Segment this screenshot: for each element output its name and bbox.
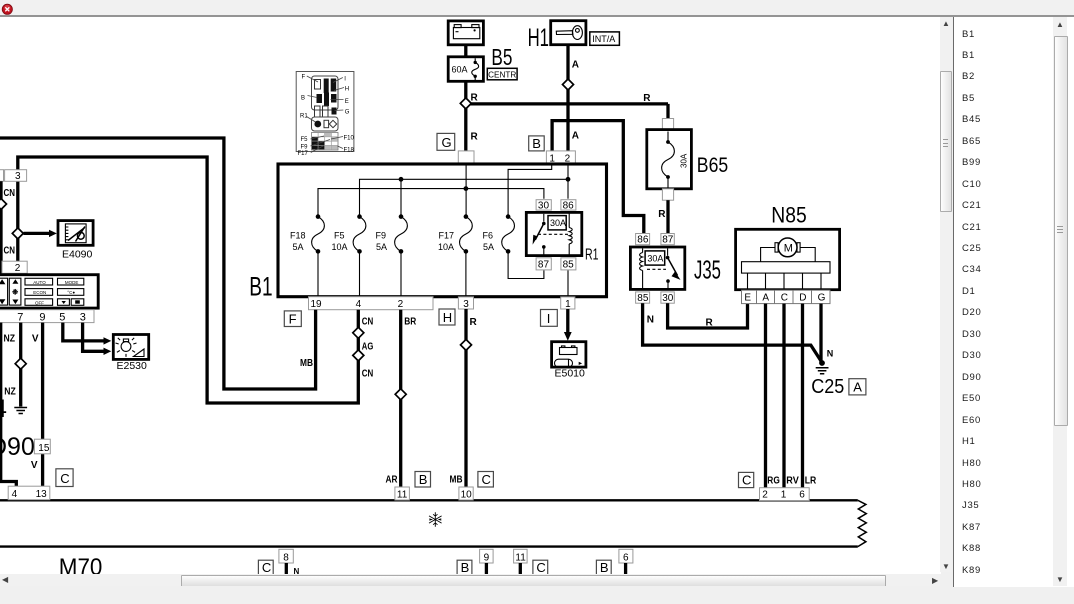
svg-text:9: 9	[39, 311, 45, 323]
svg-text:30A: 30A	[550, 218, 566, 228]
svg-text:F9: F9	[301, 144, 309, 150]
pin box 10 on M70	[459, 487, 473, 501]
svg-text:B: B	[419, 472, 428, 487]
wire R horizontal to B65	[469, 104, 668, 119]
connector letter A	[849, 379, 866, 395]
svg-text:9: 9	[484, 552, 490, 563]
label B5	[491, 44, 512, 70]
relay J35	[630, 234, 684, 305]
svg-text:J35: J35	[694, 255, 721, 285]
B1 internal: F9 drop	[400, 179, 402, 216]
left edge connector pin boxes (cut)	[0, 170, 27, 183]
svg-text:R: R	[470, 317, 478, 328]
svg-text:A: A	[853, 380, 862, 395]
B1 internal: pin1 jog to F6	[508, 164, 552, 217]
connector letter B (pin 6)	[596, 560, 611, 575]
wire from pin 1 up-over to J35 86	[552, 121, 644, 234]
svg-text:AUTO: AUTO	[33, 280, 46, 285]
B1 internal bus L2 (30 feed)	[318, 189, 544, 217]
left edge wire upper segment	[0, 181, 3, 274]
svg-text:15: 15	[38, 443, 50, 454]
svg-text:2: 2	[398, 299, 404, 310]
svg-text:CENTR: CENTR	[488, 70, 516, 79]
svg-text:B65: B65	[697, 153, 728, 177]
label B1	[249, 271, 272, 301]
svg-text:10A: 10A	[438, 242, 454, 252]
connector letter H	[439, 309, 455, 325]
blower motor N85	[736, 229, 840, 303]
svg-text:11: 11	[397, 490, 408, 501]
M70 bottom pin 8 and wire N	[279, 549, 300, 576]
ignition/battery icon E5010	[552, 342, 586, 368]
pin box 1 2 on B1	[546, 151, 575, 164]
pin box 2 1 6 on M70	[760, 488, 810, 501]
fuse F18 5A	[290, 214, 324, 253]
label E5010	[555, 368, 586, 380]
svg-text:19: 19	[311, 299, 323, 310]
splice diamond on left edge wire	[0, 199, 7, 210]
label C25	[811, 376, 844, 398]
svg-text:R: R	[706, 317, 714, 328]
svg-text:F18: F18	[344, 148, 355, 154]
bottom strip	[0, 586, 1074, 604]
svg-text:H: H	[345, 87, 349, 93]
fuse F9 5A	[376, 214, 408, 253]
svg-text:85: 85	[637, 293, 649, 304]
svg-text:30: 30	[662, 293, 674, 304]
splice diamonds on CN/AG wire	[353, 327, 364, 361]
pin box G (blank) on B1	[458, 151, 474, 164]
wire R from B5 fuse down to G pin	[464, 45, 467, 152]
svg-text:F17: F17	[439, 230, 455, 240]
horizontal scrollbar	[0, 574, 940, 586]
svg-text:5: 5	[59, 311, 65, 323]
svg-text:H: H	[443, 310, 452, 325]
svg-text:3: 3	[80, 311, 86, 323]
svg-text:R: R	[658, 209, 666, 220]
svg-text:A: A	[762, 293, 769, 304]
wire N from J35 85 to ground	[643, 303, 822, 362]
svg-text:N: N	[827, 349, 834, 359]
fuse F6 5A	[483, 214, 515, 253]
wire LR from N85 D to M70 pin 6	[801, 304, 804, 488]
svg-text:2: 2	[15, 263, 21, 274]
svg-text:A: A	[572, 60, 579, 71]
harness band M70	[0, 500, 866, 546]
wire R/MB from B1 pin 3 to M70 pin 10	[450, 309, 478, 488]
label E2530	[117, 360, 148, 372]
fuse module B65	[647, 119, 692, 201]
svg-text:RV: RV	[786, 475, 799, 486]
connector letter C (N85 wires)	[739, 472, 754, 487]
svg-text:B: B	[301, 96, 305, 102]
svg-text:E: E	[345, 99, 349, 105]
wire R from J35 30 to N85 E	[668, 303, 748, 328]
svg-text:30A: 30A	[647, 254, 663, 264]
wire N from N85 G to ground	[819, 304, 822, 362]
svg-text:G: G	[345, 110, 350, 116]
svg-text:C: C	[262, 560, 271, 574]
svg-text:N: N	[294, 567, 300, 574]
svg-text:CN: CN	[362, 368, 374, 379]
label D90	[0, 433, 35, 461]
connector letter C (left)	[56, 469, 73, 487]
svg-text:R: R	[471, 132, 479, 143]
svg-text:E4090: E4090	[62, 249, 93, 261]
big label 4 (cut component)	[0, 395, 7, 423]
M70 bottom pin 11	[514, 549, 528, 574]
svg-text:R: R	[471, 92, 479, 103]
svg-text:8: 8	[283, 552, 289, 563]
wire label A (lower)	[572, 130, 579, 141]
svg-text:F6: F6	[483, 230, 494, 240]
svg-text:B: B	[532, 136, 541, 151]
svg-text:CN: CN	[362, 316, 374, 327]
svg-text:7: 7	[17, 311, 23, 323]
pin box 11 on M70	[395, 487, 410, 501]
key switch H1	[551, 21, 586, 45]
B1 internal: pin2 drop to R1 86	[567, 164, 569, 199]
svg-text:4: 4	[356, 299, 362, 310]
B1 internal: F6 to R1 87	[508, 251, 544, 278]
B1 internal: fuse outputs to bottom pins	[318, 251, 466, 297]
svg-text:F18: F18	[290, 230, 306, 240]
svg-text:86: 86	[637, 235, 649, 246]
label J35	[694, 255, 721, 285]
svg-text:5A: 5A	[293, 242, 304, 252]
label M70	[59, 554, 103, 581]
svg-text:5A: 5A	[376, 242, 387, 252]
svg-text:AR: AR	[386, 475, 399, 486]
svg-text:OFF: OFF	[35, 300, 44, 305]
svg-text:C25: C25	[811, 376, 844, 398]
wire labels RG RV LR	[767, 475, 817, 486]
label E4090	[62, 249, 93, 261]
svg-text:AG: AG	[362, 341, 374, 352]
svg-text:10: 10	[461, 490, 473, 501]
label INT/A	[590, 32, 620, 45]
connector letter B	[529, 136, 545, 151]
svg-text:CN: CN	[4, 245, 16, 256]
svg-text:V: V	[32, 334, 39, 345]
svg-text:4: 4	[12, 489, 18, 500]
pin box 4 13 on M70	[8, 486, 50, 500]
svg-text:30: 30	[538, 200, 550, 211]
fuse F5 10A	[332, 214, 366, 253]
svg-text:F9: F9	[376, 230, 387, 240]
label CENTR	[487, 68, 517, 80]
svg-text:BR: BR	[404, 316, 417, 327]
svg-text:ECON: ECON	[33, 290, 46, 295]
connector letter F	[284, 311, 301, 327]
right list panel	[953, 16, 1074, 587]
control panel pin row 7 9 5 3	[0, 310, 94, 324]
fuse B5 60A	[448, 57, 483, 82]
M70 bottom pin 9	[480, 549, 494, 574]
svg-text:A: A	[572, 130, 579, 141]
splice diamond to E4090	[12, 228, 23, 239]
svg-text:C: C	[60, 471, 69, 486]
connector letter B (AR wire)	[415, 472, 431, 488]
svg-text:MB: MB	[300, 358, 313, 369]
wire V from panel pin 9 through D90 pin 15 to M70 pin 13	[31, 323, 43, 487]
svg-text:D: D	[799, 293, 806, 304]
B1 internal: feed from pin G to bus L2	[465, 164, 467, 217]
svg-text:NZ: NZ	[4, 334, 16, 345]
wire label N at ground	[827, 349, 834, 359]
svg-text:N: N	[647, 315, 654, 326]
svg-text:F: F	[302, 75, 306, 81]
splice diamond on NZ wire	[15, 358, 26, 369]
battery	[448, 21, 483, 45]
wire BR/AR from B1 pin 2 to M70 pin 11	[386, 310, 417, 488]
svg-text:C: C	[742, 473, 751, 488]
svg-text:V: V	[31, 460, 38, 471]
connector letter C (pin 8)	[258, 560, 273, 575]
svg-text:RG: RG	[767, 475, 780, 486]
svg-text:R1: R1	[585, 246, 599, 263]
connector letter B (pin 9)	[457, 560, 472, 575]
svg-text:R: R	[643, 93, 651, 104]
pin box 3 on B1 bottom	[458, 297, 473, 310]
svg-text:F5: F5	[301, 137, 309, 143]
svg-text:°C●: °C●	[67, 290, 75, 295]
lighting icon E2530	[113, 335, 148, 360]
fuse box location inset	[296, 72, 354, 158]
wire label R (above splice)	[471, 92, 479, 103]
svg-text:B1: B1	[249, 271, 272, 301]
svg-text:1: 1	[565, 299, 571, 310]
svg-text:CN: CN	[4, 188, 16, 199]
svg-text:F: F	[289, 312, 297, 327]
svg-text:F5: F5	[334, 230, 345, 240]
splice diamond on B5 wire	[460, 98, 471, 109]
splice diamond on R/MB wire	[461, 339, 472, 350]
svg-text:10A: 10A	[332, 242, 348, 252]
wires from panel pins 5 and 3 to E2530 with arrows	[63, 323, 112, 355]
wire label CN (upper)	[4, 188, 16, 199]
ground C25	[816, 360, 829, 374]
control panel D90 (climate control)	[0, 275, 98, 308]
svg-text:LR: LR	[805, 475, 817, 486]
wire label CN (lower)	[4, 245, 16, 256]
label H1	[528, 24, 549, 52]
connector letter C (pin 11)	[533, 560, 548, 575]
svg-text:85: 85	[563, 260, 575, 271]
wire MB from B1 pin 19 loop to left edge	[0, 138, 316, 389]
label B65	[697, 153, 728, 177]
wire CN from B1 pin 4 loop to connector pin 3 and panel pin 2	[18, 157, 374, 403]
svg-text:2: 2	[762, 490, 768, 501]
close button	[2, 4, 12, 14]
wire label A (upper)	[572, 60, 579, 71]
svg-text:F10: F10	[344, 136, 355, 142]
svg-text:INT/A: INT/A	[592, 34, 615, 44]
ground (panel)	[14, 408, 27, 414]
wire NZ from panel pin 7 to ground	[4, 323, 21, 407]
snowflake (A/C) mark	[429, 512, 442, 527]
splice diamond on H1 wire	[563, 79, 574, 90]
svg-text:E: E	[744, 293, 751, 304]
svg-text:MODE: MODE	[65, 280, 79, 285]
wire A from H1 down to pin 2	[566, 45, 569, 152]
svg-text:5A: 5A	[483, 242, 494, 252]
svg-text:87: 87	[538, 260, 550, 271]
connector letter C (MB wire)	[478, 472, 494, 488]
svg-text:B: B	[600, 560, 609, 574]
svg-text:60A: 60A	[452, 64, 468, 74]
svg-text:F17: F17	[298, 151, 309, 157]
wire label R (below splice)	[471, 132, 479, 143]
M70 bottom pin 6	[619, 549, 633, 574]
top bar over everything at top	[0, 0, 1074, 17]
svg-text:1: 1	[781, 490, 787, 501]
left edge wire lower segment to M70 pin 4	[1, 323, 17, 487]
ECU box B1	[278, 164, 607, 297]
svg-text:86: 86	[563, 200, 575, 211]
svg-text:B5: B5	[491, 44, 512, 70]
pin box 19 4 2 on B1 bottom	[309, 297, 434, 311]
svg-text:3: 3	[463, 299, 469, 310]
svg-text:G: G	[442, 135, 452, 150]
sensor icon E4090	[58, 221, 93, 246]
svg-text:D90: D90	[0, 433, 35, 461]
B1 internal bus L1 (86 feed)	[360, 179, 569, 216]
svg-text:30A: 30A	[680, 153, 689, 168]
svg-text:C: C	[482, 472, 491, 487]
connector letter G	[437, 133, 455, 150]
B1 internal: R1 85 to pin 1	[567, 270, 569, 297]
vertical scrollbar of diagram	[940, 17, 952, 572]
svg-text:C: C	[781, 293, 788, 304]
svg-text:E5010: E5010	[555, 368, 586, 380]
svg-text:13: 13	[36, 489, 48, 500]
pin box 2 above control panel	[2, 261, 27, 274]
splice diamond on BR wire	[395, 389, 406, 400]
wire RV from N85 C to M70 pin 1	[782, 304, 785, 488]
junction nodes on buses	[399, 177, 571, 191]
svg-text:6: 6	[799, 490, 805, 501]
svg-text:C: C	[536, 560, 545, 574]
svg-text:11: 11	[515, 552, 526, 563]
label R1	[585, 246, 599, 263]
svg-text:MB: MB	[450, 475, 463, 486]
arrow to E4090	[24, 230, 57, 237]
wire label R (to B65)	[643, 93, 651, 104]
pin box 1 on B1 bottom	[561, 297, 575, 310]
svg-text:N85: N85	[771, 203, 806, 228]
svg-text:B: B	[461, 560, 470, 574]
svg-text:6: 6	[623, 552, 629, 563]
svg-text:M: M	[784, 243, 793, 255]
wire RG from N85 A to M70 pin 2	[764, 304, 767, 488]
svg-text:E2530: E2530	[117, 360, 148, 372]
list panel scrollbar	[1053, 17, 1067, 586]
svg-text:87: 87	[662, 235, 674, 246]
svg-text:H1: H1	[528, 24, 549, 52]
svg-text:I: I	[547, 311, 551, 326]
label N85	[771, 203, 806, 228]
svg-text:❉: ❉	[12, 288, 19, 297]
wire from B1 pin 1 to E5010 with arrow	[564, 309, 572, 341]
connector letter I	[541, 310, 558, 327]
relay R1	[526, 200, 582, 271]
svg-text:M70: M70	[59, 554, 103, 574]
svg-text:3: 3	[15, 171, 21, 182]
wire R from B65 to J35 87	[658, 200, 668, 234]
pin box 15 of D90	[34, 439, 50, 454]
fuse F17 10A	[438, 214, 472, 253]
svg-text:G: G	[818, 293, 826, 304]
